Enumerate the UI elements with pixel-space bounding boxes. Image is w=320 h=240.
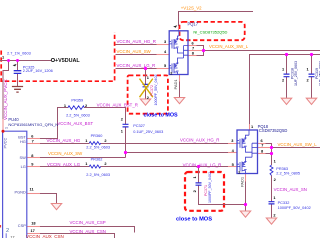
wire VCCIN_AUX_SW stub to PQ17 pin4	[116, 54, 158, 56]
svg-text:VCCIN_AUX_SN: VCCIN_AUX_SN	[274, 187, 307, 192]
svg-text:4: 4	[164, 49, 167, 54]
dashed box around PQ17 part number	[180, 22, 245, 40]
junction LG_R to PC371	[197, 165, 200, 168]
wire stub bottom-left cut-off	[5, 233, 7, 238]
svg-text:1: 1	[274, 159, 277, 164]
svg-text:PC332: PC332	[278, 201, 290, 205]
wire PC318 bottom	[286, 77, 288, 98]
svg-text:PR362: PR362	[91, 158, 103, 162]
svg-text:LG: LG	[21, 164, 26, 169]
resistor PR360 zigzag	[89, 142, 100, 145]
svg-text:VCCIN_AUX_BST: VCCIN_AUX_BST	[57, 121, 93, 126]
svg-text:PR360: PR360	[91, 134, 103, 138]
wire PC325 bottom to ground	[17, 73, 19, 86]
transistor PQ17 part number green	[193, 30, 227, 35]
svg-text:2: 2	[307, 77, 310, 82]
svg-text:VCCIN_AUX_HG: VCCIN_AUX_HG	[47, 138, 81, 143]
wire LG_R: PR362 to PQ18 pin5	[101, 166, 229, 168]
svg-text:7: 7	[261, 143, 263, 148]
pin stub PU40 BST	[27, 138, 40, 140]
wire PC327 bottom to SW node	[125, 127, 127, 157]
transistor PQ18 body	[237, 130, 258, 174]
junction at V5DUAL wire x8	[7, 59, 10, 62]
svg-text:VCCIN_AUX_SW: VCCIN_AUX_SW	[48, 151, 83, 156]
pin stub PU40 LG	[27, 166, 40, 168]
svg-text:1: 1	[307, 67, 310, 72]
svg-text:close to MOS: close to MOS	[176, 216, 212, 222]
svg-text:VCCIN_AUX_LG_R: VCCIN_AUX_LG_R	[117, 63, 156, 68]
svg-text:PAD1: PAD1	[173, 79, 178, 90]
ground arrow PC319	[306, 98, 316, 104]
net labels magenta	[3, 39, 307, 234]
capacitor PC332 plates	[269, 202, 275, 204]
transistor PQ18 internal FETs	[237, 130, 257, 173]
svg-text:2: 2	[104, 161, 107, 166]
pin stub PQ17 pin7	[188, 50, 204, 52]
wire BST_R: PR359 to PC327	[84, 108, 125, 125]
svg-text:PVCC: PVCC	[3, 138, 8, 149]
wire PC319 bottom	[311, 77, 313, 98]
svg-text:1: 1	[192, 176, 197, 179]
svg-text:5: 5	[164, 63, 167, 68]
svg-text:1000PF_50V_0402: 1000PF_50V_0402	[278, 206, 311, 210]
pin stub PQ18 pin4	[228, 152, 237, 154]
svg-text:VCCIN_AUX_CSP: VCCIN_AUX_CSP	[70, 220, 106, 225]
pin stub PQ17 pin6	[188, 45, 197, 47]
power +V5DUAL	[55, 58, 80, 64]
svg-text:VCCIN_AUX_LG: VCCIN_AUX_LG	[47, 162, 81, 167]
junction PQ18 pin8	[270, 152, 273, 155]
capacitor PC372 plates (DNI)	[143, 84, 149, 86]
svg-text:1: 1	[273, 195, 276, 200]
wire V12S rail to caps	[250, 55, 320, 125]
wire PQ18 PAD1 to ground	[245, 181, 247, 211]
svg-text:VCCIN_AUX_HG_R: VCCIN_AUX_HG_R	[180, 138, 219, 143]
dashed box around DNI capacitor PC372 (close to MOS)	[128, 75, 168, 113]
wire CSN pin17	[39, 234, 115, 239]
wire SW branch to PQ18 pin4	[126, 152, 229, 154]
pin stub PQ18 pin6	[258, 143, 266, 145]
transistor PQ17 body	[169, 31, 188, 75]
blue reference designators and values	[7, 52, 311, 210]
capacitor PC319 plates	[309, 74, 315, 77]
svg-text:VCCIN_AUX_CSN: VCCIN_AUX_CSN	[26, 234, 64, 238]
ground arrow PGND	[51, 204, 61, 210]
pin stub PQ17 pin8	[188, 55, 197, 57]
svg-text:1: 1	[121, 129, 124, 134]
wire VCCIN_AUX_SW_L from PQ18 to right edge	[272, 147, 320, 149]
svg-text:0.1UF_25V_0603: 0.1UF_25V_0603	[133, 130, 163, 134]
ground arrow PQ18 PAD1	[240, 211, 250, 217]
wire PC318 top	[286, 55, 288, 75]
IC pin names	[3, 127, 27, 228]
svg-text:close to MOS: close to MOS	[144, 113, 179, 119]
svg-text:+V5DUAL: +V5DUAL	[55, 58, 80, 64]
pin stub PU40 PVCC	[2, 119, 4, 131]
capacitor PC318 plates	[284, 74, 290, 77]
pin stub PQ17 pin3	[157, 44, 170, 46]
op-amp-controller PU40 body	[3, 131, 27, 238]
cut-off component pin 2 at bottom-left	[6, 228, 15, 239]
svg-text:VCCIN_AUX_SW_L: VCCIN_AUX_SW_L	[278, 142, 318, 147]
IC PU40 ref	[8, 22, 287, 133]
svg-text:1UF_25V_0603: 1UF_25V_0603	[294, 61, 298, 86]
PAD1 texts rotated	[173, 79, 245, 187]
wire BST net: pin6 to PR359	[39, 108, 68, 139]
svg-text:1000PF_50V_0402: 1000PF_50V_0402	[154, 75, 158, 106]
wire HG row PU40 to PR360	[39, 143, 89, 145]
wire PC372 bottom to ground	[145, 87, 147, 99]
svg-text:1: 1	[282, 67, 285, 72]
svg-text:2: 2	[273, 213, 276, 218]
svg-text:3: 3	[231, 138, 234, 143]
svg-text:CSD87352Q5D: CSD87352Q5D	[259, 128, 287, 133]
ground arrow PQ17 PAD1	[174, 98, 184, 104]
rotated capacitor texts	[150, 61, 320, 203]
pin numbers gray	[2, 39, 310, 233]
svg-text:NCP81561MNTXG_QFN_N: NCP81561MNTXG_QFN_N	[8, 122, 58, 127]
wire PC325 top	[17, 61, 19, 71]
junction at PC325	[16, 59, 19, 62]
junction SW node at PC327	[124, 151, 127, 154]
svg-text:CSP: CSP	[18, 223, 26, 228]
wire PQ17 PAD1 to ground	[179, 81, 181, 98]
junction PQ18 pin7 SW_L	[270, 146, 273, 149]
pin stub PQ18 pin8	[258, 153, 266, 155]
ground earth symbol PC325	[12, 87, 23, 93]
wire PC371 bottom to PQ18 PAD	[199, 185, 246, 204]
svg-text:1: 1	[5, 127, 9, 129]
svg-text:1: 1	[2, 54, 5, 59]
svg-text:PQ17: PQ17	[188, 22, 199, 27]
wire PQ18 pin8 to tie	[265, 153, 272, 155]
svg-text:PGND: PGND	[15, 190, 26, 195]
wire LG row PU40 to PR362	[39, 166, 89, 168]
svg-text:1: 1	[251, 124, 254, 129]
resistor PR362 zigzag	[89, 165, 100, 168]
pin stub PU40 SW	[27, 157, 40, 159]
wire HG_R: PR360 to PQ18 pin3	[101, 143, 229, 145]
svg-text:1: 1	[85, 161, 88, 166]
pin stub PQ18 PAD1	[245, 174, 247, 182]
svg-text:2: 2	[121, 117, 124, 122]
svg-text:1000PF_50V_0402: 1000PF_50V_0402	[208, 172, 212, 203]
cursor arrow near PQ17 pin1	[173, 25, 177, 28]
svg-text:17: 17	[31, 228, 35, 233]
capacitor PC325 plates	[14, 71, 22, 74]
svg-text:2: 2	[104, 138, 107, 143]
wire PC371 top branch from LG_R	[198, 167, 200, 183]
wire PQ18 pins 6-7-8 tie and down to PR363	[265, 144, 272, 166]
wire V5DUAL horizontal	[0, 60, 51, 62]
svg-text:2.2_5%_0603: 2.2_5%_0603	[66, 114, 90, 118]
svg-text:11: 11	[30, 186, 35, 191]
orange net labels	[48, 5, 317, 156]
wire VCCIN_AUX_SW_L from PQ17 to right edge	[204, 50, 320, 52]
svg-text:PR359: PR359	[71, 98, 83, 102]
svg-text:2.2_5%_0805: 2.2_5%_0805	[276, 172, 300, 176]
node PVCC connection dot	[2, 130, 5, 133]
wire VCCIN_AUX_LG_R stub to PQ17 pin5	[116, 68, 158, 70]
cursor arrow near PC325	[13, 64, 17, 67]
svg-text:3: 3	[164, 39, 167, 44]
wire PGND pin11 to ground	[39, 194, 57, 204]
wire PC332 bottom to ground	[271, 204, 273, 218]
svg-text:2.7_1%_0603: 2.7_1%_0603	[7, 52, 31, 56]
transistor PQ17 internal FETs	[169, 31, 188, 75]
wire SW row to PU40 pin8	[39, 157, 126, 159]
svg-text:HG: HG	[20, 139, 26, 144]
wire PQ17 pins 6-7-8 tie	[196, 46, 204, 56]
svg-text:VCCIN_AUX_SW: VCCIN_AUX_SW	[117, 49, 152, 54]
wire fragment left edge	[0, 225, 2, 228]
wire PC319 top	[311, 55, 313, 75]
svg-text:VCCIN_AUX_PVCC: VCCIN_AUX_PVCC	[3, 78, 8, 120]
pin stub PU40 HG	[27, 143, 40, 145]
svg-text:NI_CSD87352Q5D: NI_CSD87352Q5D	[193, 30, 227, 35]
dashed box around capacitor PC371 (close to MOS)	[185, 172, 224, 211]
junction PC319 at rail	[310, 53, 313, 56]
svg-text:8: 8	[261, 149, 264, 154]
svg-text:1: 1	[85, 138, 88, 143]
svg-text:2: 2	[274, 177, 277, 182]
svg-text:2.2_5%_0603: 2.2_5%_0603	[86, 146, 110, 150]
pin stub PU40 CSP	[27, 226, 40, 228]
pin stub PQ18 pin3	[228, 143, 237, 145]
svg-text:VCCIN_AUX_HG_R: VCCIN_AUX_HG_R	[117, 39, 156, 44]
close to MOS annotations	[144, 113, 213, 223]
pin stub PQ17 PAD1	[179, 75, 181, 82]
ground arrow PC332	[266, 218, 276, 224]
resistor PR363 zigzag vertical	[270, 165, 273, 175]
no-stuff X over PC372	[140, 79, 153, 98]
pin stub PQ17 pin4	[157, 54, 170, 56]
svg-text:2: 2	[282, 77, 285, 82]
svg-text:2.2_5%_0603: 2.2_5%_0603	[86, 173, 110, 177]
wire VCCIN_AUX_HG_R stub to PQ17 pin3	[116, 44, 158, 46]
svg-text:VCCIN_AUX_CSN: VCCIN_AUX_CSN	[70, 229, 106, 234]
pin stub PU40 CSN	[27, 233, 40, 235]
wire LG_R branch down to PC372	[145, 69, 147, 85]
pin stub PQ18 pin7	[258, 147, 272, 149]
capacitor PC327 plates	[123, 124, 129, 127]
ground arrow PC372	[140, 99, 150, 105]
svg-text:2.2UF_16V_1206: 2.2UF_16V_1206	[23, 69, 53, 73]
svg-text:PR363: PR363	[276, 167, 288, 171]
svg-text:8: 8	[192, 50, 195, 55]
capacitor PC371 plates	[196, 183, 202, 185]
pin stub PQ18 pin5	[228, 166, 237, 168]
svg-text:SW: SW	[20, 155, 27, 160]
pin stub PQ17 pin1 top	[178, 26, 180, 31]
svg-text:PAD1: PAD1	[240, 176, 245, 187]
net VCCIN AUX CSN red port text	[26, 234, 64, 239]
svg-text:9: 9	[31, 162, 34, 167]
wire from V5DUAL down-left to PU40 PVCC	[3, 61, 9, 121]
svg-text:1: 1	[147, 75, 150, 80]
svg-text:VCCIN_AUX_LG_R: VCCIN_AUX_LG_R	[183, 162, 222, 167]
svg-text:VCCIN_AUX_SW_L: VCCIN_AUX_SW_L	[209, 44, 249, 49]
svg-text:PC327: PC327	[133, 124, 145, 128]
junction PC318 at rail	[285, 53, 288, 56]
wire CSP pin18	[39, 227, 135, 233]
resistor PR359 zigzag	[68, 106, 84, 110]
close-to-MOS region dashed boundary (left, partially cut)	[1, 32, 114, 81]
junction PC371 to PQ18 PAD	[244, 203, 247, 206]
svg-text:18: 18	[31, 220, 36, 225]
junction PQ17 pin7 SW_L	[202, 49, 205, 52]
svg-text:+V12S_V2: +V12S_V2	[181, 5, 202, 10]
svg-text:VCCIN_AUX_BST_R: VCCIN_AUX_BST_R	[97, 103, 138, 108]
ground arrow PC318	[281, 98, 291, 104]
svg-text:2: 2	[192, 189, 197, 192]
wire +V12S_V2 to PQ17 pin1	[179, 12, 254, 27]
pin stub PQ17 pin5	[157, 68, 170, 70]
svg-text:17: 17	[10, 236, 14, 238]
junction LG_R to PC372	[144, 67, 147, 70]
power symbol +V5DUAL circle	[51, 58, 54, 61]
svg-text:7: 7	[32, 138, 34, 143]
pin stub PU40 PGND	[27, 193, 40, 195]
wire PR363 to PC332	[271, 176, 273, 202]
pin stub PQ18 pin1 top	[249, 124, 251, 130]
